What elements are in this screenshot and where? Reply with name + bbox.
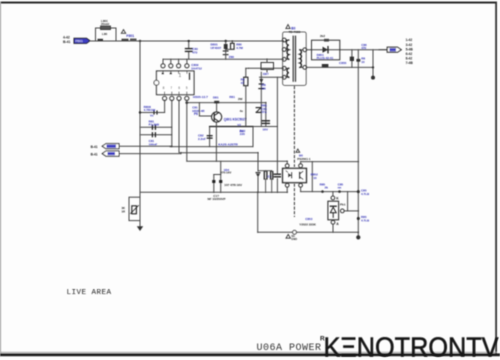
resistor R813 vertical bbox=[245, 68, 247, 77]
label R853 bbox=[320, 182, 329, 189]
svg-text:R81: R81 bbox=[229, 95, 235, 99]
svg-text:107 47R-16V: 107 47R-16V bbox=[224, 183, 242, 187]
wire ref branch bbox=[347, 192, 349, 211]
svg-text:P.1.2kB: P.1.2kB bbox=[149, 123, 160, 127]
IC U801 top pin stubs to H2 bbox=[162, 59, 164, 63]
output connector CN851 bbox=[379, 49, 387, 51]
connector circle on bottom rail bbox=[293, 230, 297, 234]
isolation dashed line upper bbox=[293, 87, 295, 167]
isolation dashed line lower bbox=[293, 184, 295, 217]
label R808 bbox=[144, 105, 156, 112]
pin 4 top circle bbox=[177, 64, 181, 68]
svg-text:2A473J: 2A473J bbox=[191, 66, 202, 70]
opto pin bottom-right bbox=[299, 183, 303, 187]
svg-text:LIVE AREA: LIVE AREA bbox=[67, 289, 112, 297]
label C802 bbox=[192, 47, 198, 55]
wire secondary y67.4 bbox=[307, 66, 373, 68]
wire y170.7 tie bbox=[258, 170, 272, 172]
svg-text:HS05-13.7: HS05-13.7 bbox=[193, 95, 208, 99]
svg-text:16V: 16V bbox=[263, 127, 268, 131]
capacitor C82 2.2nF bbox=[207, 135, 212, 137]
transistor Q801 bbox=[212, 112, 222, 122]
capacitor C802 across line bbox=[188, 41, 190, 48]
svg-text:GND: GND bbox=[291, 237, 297, 241]
node labels 4-42 B-41 at input connector bbox=[63, 36, 70, 44]
TL431 U852 body bbox=[328, 201, 339, 220]
label R802 bbox=[236, 43, 243, 50]
wire H2 y59 to transformer bbox=[163, 58, 284, 60]
wire Q801 emitter down bbox=[215, 122, 217, 161]
wire vertical x140 primary return bbox=[139, 41, 141, 221]
rectifier box D851 bbox=[312, 40, 340, 60]
choke below box bbox=[322, 64, 329, 67]
label C853b bbox=[338, 182, 344, 189]
diode D851 bbox=[323, 47, 329, 53]
TL431 cathode pin bbox=[331, 196, 335, 200]
left connector CN1 bbox=[91, 145, 98, 156]
pin 3 transformer bbox=[282, 57, 286, 61]
capacitor C817 C818 pair below y161 rail bbox=[220, 161, 222, 174]
svg-text:NF 10/250VP: NF 10/250VP bbox=[208, 197, 226, 201]
svg-text:3-42: 3-42 bbox=[406, 43, 413, 47]
feedback rail x358.3 bbox=[357, 50, 359, 233]
border frame left bbox=[0, 2, 2, 357]
opto pin bottom-left bbox=[285, 183, 289, 187]
pin 7 transformer secondary bbox=[303, 66, 307, 70]
warning triangle bottom bbox=[286, 234, 290, 238]
label NTC bbox=[122, 206, 126, 214]
pin 2 top circle bbox=[161, 64, 165, 68]
wire y152.8 rail bbox=[179, 152, 258, 154]
opto LED bbox=[288, 173, 292, 178]
capacitor C816 bbox=[262, 120, 269, 122]
svg-text:Z80: Z80 bbox=[229, 55, 235, 59]
wire y102.6 vcc rail bbox=[187, 102, 266, 104]
label C809 right of pins bbox=[191, 63, 202, 70]
wire CN2 to y152.8 rail bbox=[119, 153, 181, 155]
junction node at x140 bbox=[139, 40, 141, 42]
label D801 bbox=[211, 43, 222, 50]
svg-text:D81: D81 bbox=[213, 96, 219, 100]
fuse F801 body bbox=[122, 39, 129, 42]
pin 6 transformer secondary bbox=[303, 48, 307, 52]
TL431 anode pin bbox=[331, 220, 335, 224]
svg-text:8-42: 8-42 bbox=[406, 57, 413, 61]
NTC element bbox=[132, 206, 137, 214]
label R813 bbox=[241, 78, 245, 85]
label C12 400UF bbox=[208, 194, 226, 201]
svg-text:KΞNOTRONTV: KΞNOTRONTV bbox=[324, 331, 500, 360]
svg-text:6: 6 bbox=[178, 86, 180, 90]
capacitor C3 on aux rail bbox=[274, 173, 280, 175]
left connector CN2 bbox=[102, 151, 119, 156]
resistor R818 vertical bars bbox=[270, 172, 272, 179]
varistor RV801 body bbox=[130, 39, 137, 42]
svg-text:F801: F801 bbox=[126, 34, 134, 38]
svg-text:Pb1: Pb1 bbox=[340, 203, 346, 207]
svg-text:470: 470 bbox=[361, 46, 366, 50]
wire y127 stub bbox=[141, 126, 172, 128]
resistor R814 vertical with labels bbox=[265, 103, 267, 127]
opto phototransistor bbox=[299, 172, 301, 178]
capacitor C813 bbox=[151, 133, 153, 137]
svg-text:2k: 2k bbox=[325, 186, 329, 190]
TL431 symbol bbox=[330, 205, 336, 207]
wire x277.4 aux rail bbox=[276, 77, 278, 173]
wire pin8 down to y112.5 rail bbox=[164, 101, 166, 113]
snubber element on box top bbox=[324, 39, 329, 42]
aux box B1 bbox=[261, 63, 274, 70]
opto pin top-right bbox=[299, 164, 303, 168]
ground stub secondary bbox=[372, 50, 374, 76]
svg-text:1N: 1N bbox=[262, 87, 266, 91]
inductor L801 top winding bbox=[101, 26, 111, 30]
wire y161.6 opto to feedback rail bbox=[301, 161, 359, 163]
svg-text:B-41: B-41 bbox=[91, 145, 98, 149]
connector P801 AC input bbox=[74, 38, 90, 43]
ground arrow primary bbox=[137, 226, 143, 231]
svg-text:4.7M: 4.7M bbox=[236, 46, 243, 50]
svg-text:B-41: B-41 bbox=[63, 40, 70, 44]
junction feedback y191.6 bbox=[357, 190, 360, 193]
svg-text:4.7R/1W: 4.7R/1W bbox=[144, 108, 156, 112]
wire opto bottom-right pin bbox=[300, 187, 302, 191]
label C815 bbox=[149, 139, 158, 146]
svg-text:P6: P6 bbox=[194, 112, 198, 116]
label R860 bbox=[361, 56, 365, 63]
svg-text:UF4007: UF4007 bbox=[211, 46, 222, 50]
wire y77.3 to transformer pin5 bbox=[260, 76, 284, 78]
svg-text:473: 473 bbox=[192, 50, 197, 54]
svg-text:Y2022 223K: Y2022 223K bbox=[299, 223, 317, 227]
secondary winding arcs bbox=[300, 50, 302, 68]
opto pin top-left bbox=[285, 164, 289, 168]
svg-text:TD-7088: TD-7088 bbox=[289, 30, 301, 34]
svg-text:7-4B: 7-4B bbox=[406, 61, 414, 65]
pin 1 transformer bbox=[282, 38, 286, 42]
border frame bottom bbox=[0, 353, 500, 356]
label C811 bbox=[192, 106, 205, 113]
warning triangle near fuse bbox=[121, 30, 125, 34]
wire CN1 to pin7 rail bbox=[119, 145, 172, 147]
zener Z802 marks bbox=[256, 107, 261, 109]
resistor R808 on rail bbox=[153, 111, 155, 114]
inductor L801 bottom winding on wire bbox=[98, 39, 104, 41]
NTC loop box bbox=[129, 197, 140, 220]
svg-text:2k2: 2k2 bbox=[320, 34, 325, 38]
svg-text:1-42: 1-42 bbox=[406, 38, 413, 42]
svg-text:PLUS-42-41: PLUS-42-41 bbox=[317, 56, 334, 60]
svg-text:1R: 1R bbox=[122, 209, 126, 213]
svg-text:4.7LB: 4.7LB bbox=[361, 219, 370, 223]
primary winding arcs bbox=[286, 40, 289, 59]
wire secondary top y49.7 bbox=[307, 49, 388, 51]
pin 5 transformer bbox=[282, 75, 286, 79]
pin 4 transformer bbox=[282, 66, 286, 70]
svg-text:10: 10 bbox=[313, 176, 317, 180]
wire y191.6 opto to feedback rail bbox=[301, 191, 359, 193]
wire y192 primary bottom rail bbox=[140, 191, 287, 193]
border frame top bbox=[0, 2, 497, 4]
pin 2 transformer bbox=[282, 48, 286, 52]
svg-text:PB01: PB01 bbox=[76, 39, 84, 43]
pin numbers U801 bbox=[163, 73, 188, 90]
svg-text:Q801 KSC5027: Q801 KSC5027 bbox=[224, 117, 247, 121]
secondary ground blob bbox=[357, 232, 359, 235]
svg-text:L80: L80 bbox=[102, 32, 108, 36]
wire y126.5 tie bbox=[210, 126, 278, 128]
svg-text:7: 7 bbox=[170, 86, 172, 90]
svg-text:2u: 2u bbox=[240, 129, 244, 133]
svg-text:PS2561-1: PS2561-1 bbox=[297, 157, 311, 161]
diode D810 vertical before opto bbox=[257, 153, 259, 171]
diode D805 vertical bbox=[260, 72, 262, 126]
junction feedback y218.5 bbox=[357, 217, 360, 220]
junction y191.6 branches bbox=[321, 190, 324, 193]
label V2 bbox=[237, 123, 245, 136]
svg-text:10: 10 bbox=[361, 60, 365, 64]
svg-text:KA2S-A2STR: KA2S-A2STR bbox=[218, 143, 238, 147]
wire pin7 down bbox=[171, 101, 173, 147]
wire opto top-right pin bbox=[300, 162, 302, 164]
label D851 bbox=[317, 53, 334, 60]
wire pin5 down bbox=[186, 101, 188, 162]
svg-text:47u: 47u bbox=[261, 110, 266, 114]
label D805 bbox=[262, 83, 266, 90]
pin 6 bottom circle bbox=[177, 96, 181, 100]
svg-text:470-16V: 470-16V bbox=[220, 171, 231, 175]
secondary bottom rail y232.3 bbox=[258, 231, 359, 233]
wire opto bottom-left pin bbox=[286, 187, 288, 192]
svg-text:4x: 4x bbox=[240, 109, 244, 113]
svg-text:2W: 2W bbox=[238, 97, 243, 101]
svg-text:nn: nn bbox=[338, 186, 342, 190]
output pin list labels bbox=[406, 38, 414, 65]
warning triangle opto bbox=[296, 149, 300, 152]
wire y68.3 to transformer pin4 bbox=[249, 67, 284, 69]
transformer T801 body bbox=[283, 32, 307, 86]
wire y134.7 stub bbox=[141, 134, 172, 136]
pin 8 bottom circle bbox=[163, 96, 167, 100]
svg-text:47: 47 bbox=[241, 81, 245, 85]
capacitor C812 bbox=[151, 125, 153, 129]
svg-text:U06A POWER: U06A POWER bbox=[257, 343, 322, 354]
wire Q801 collector bbox=[216, 103, 218, 112]
capacitor C855 vertical bbox=[351, 50, 353, 68]
op-amp U801 SMPS controller body bbox=[157, 71, 195, 95]
zener Z801 marks bbox=[223, 50, 228, 52]
wire y112.5 rail to primary return bbox=[140, 112, 165, 114]
line filter L801 loop bbox=[96, 28, 117, 41]
label R852 bbox=[311, 173, 319, 180]
junction at snubber top bbox=[225, 40, 227, 42]
wire x257.7 down bbox=[257, 192, 259, 232]
diode D801 snubber bbox=[225, 41, 227, 44]
title block line above bottom bar bbox=[0, 351, 497, 354]
label C860 bbox=[361, 43, 367, 50]
wire y161 rail bbox=[187, 160, 287, 162]
pin 7 bottom circle bbox=[170, 96, 174, 100]
warning triangle transformer bbox=[286, 25, 290, 29]
svg-text:4.7LB: 4.7LB bbox=[361, 192, 370, 196]
svg-text:1: 1 bbox=[179, 73, 182, 79]
wire connector to filter bbox=[90, 40, 96, 42]
wire filter to transformer H1 bbox=[116, 40, 284, 42]
TL431 ref pin circle bbox=[340, 209, 344, 213]
wire pin6 down bbox=[178, 101, 180, 153]
optocoupler U851 body bbox=[283, 168, 307, 182]
border frame right bbox=[495, 2, 497, 355]
svg-text:5-4B: 5-4B bbox=[406, 47, 414, 51]
capacitor C819 vertical bars bbox=[263, 172, 265, 179]
wire base of Q801 bbox=[198, 103, 200, 116]
label C82 bbox=[198, 133, 206, 140]
resistor R802 snubber bbox=[231, 41, 233, 43]
svg-text:5: 5 bbox=[186, 86, 188, 90]
wire opto top-left pin bbox=[286, 161, 288, 164]
pin 5 bottom circle bbox=[185, 96, 189, 100]
svg-text:8: 8 bbox=[163, 86, 165, 90]
pin 3 top circle bbox=[169, 64, 173, 68]
svg-text:C853: C853 bbox=[305, 217, 313, 221]
transformer core lines bbox=[292, 36, 294, 81]
label SGD black bbox=[291, 234, 297, 241]
label L801 value bbox=[101, 19, 109, 26]
resistor R852 leg bbox=[311, 162, 313, 192]
svg-text:B-41: B-41 bbox=[91, 152, 98, 156]
pin 1 top circle bbox=[185, 64, 189, 68]
svg-text:6-42: 6-42 bbox=[406, 52, 413, 56]
label C858 bbox=[361, 188, 370, 195]
svg-text:D8?: D8? bbox=[263, 72, 269, 76]
label R858 bbox=[361, 215, 370, 222]
svg-text:20mH: 20mH bbox=[101, 22, 109, 26]
wire y146.6 rail bbox=[170, 146, 253, 148]
svg-text:2.2nF: 2.2nF bbox=[198, 137, 206, 141]
label R812 bbox=[149, 119, 160, 126]
snubber loop box around C82 bbox=[210, 127, 253, 147]
svg-text:Vz: Vz bbox=[150, 114, 154, 118]
svg-text:C855: C855 bbox=[339, 61, 347, 65]
capacitor C860 blob bbox=[356, 59, 360, 62]
